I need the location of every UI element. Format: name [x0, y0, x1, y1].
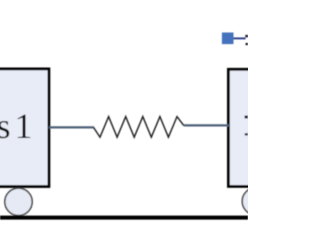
- wheel under mass 2: [242, 188, 269, 215]
- mass 2: [228, 69, 288, 186]
- legend marker square: [222, 33, 234, 45]
- ground: [0, 216, 248, 220]
- wire from spring to mass 2: [184, 124, 229, 126]
- wheel under mass 1: [5, 188, 32, 215]
- legend text (cut-off glyph tips): [245, 35, 248, 45]
- wire from mass 1 to spring: [49, 126, 94, 128]
- svg-text:mass 1: mass 1: [0, 106, 33, 146]
- mass 2 label (cut-off serif tips): [245, 116, 248, 136]
- mass 1: [0, 69, 49, 187]
- legend line: [234, 37, 246, 39]
- spring: [94, 117, 184, 138]
